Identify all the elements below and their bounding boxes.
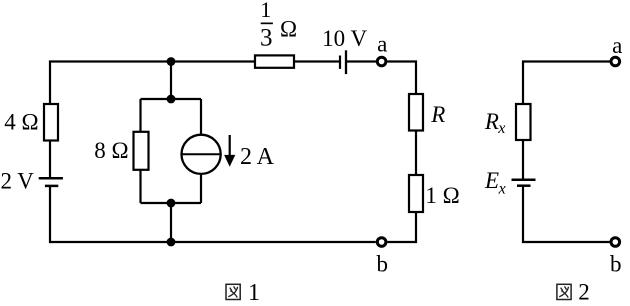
node dot: bottom junction [167, 238, 176, 247]
svg-text:R: R [484, 109, 499, 134]
wire: top rail down to 8-ohm resistor [139, 99, 141, 132]
svg-text:1: 1 [260, 0, 271, 22]
wire: fig1 2V battery down + bottom rail to terminal b [50, 186, 376, 242]
battery Ex plates (long top, short bottom) [512, 179, 536, 182]
resistor 8-ohm body [134, 132, 149, 170]
svg-text:b: b [610, 251, 622, 276]
wire: fig1 left rail top + top rail to 1/3-ohm resistor [50, 62, 255, 106]
wire: 10V battery to terminal a [346, 60, 376, 62]
terminal a (fig2) [611, 57, 620, 66]
wire: parallel pair right leg down to current source [200, 99, 202, 135]
wire: 1/3-ohm resistor to 10V battery [294, 60, 340, 62]
current source 2A circle [182, 135, 221, 174]
svg-text:8 Ω: 8 Ω [94, 138, 128, 163]
svg-text:a: a [612, 33, 622, 58]
resistor Rx body [516, 104, 531, 140]
wire: 1-ohm resistor down and left to terminal b [387, 212, 416, 242]
wire: parallel pair top rail [141, 98, 202, 100]
svg-text:Ω: Ω [280, 17, 297, 42]
node dot: top junction [167, 57, 176, 66]
svg-text:b: b [377, 251, 389, 276]
label fig1 caption: drawn kanji ZU + 1 [226, 280, 260, 306]
resistor 1/3-ohm body [255, 55, 294, 67]
resistor 1-ohm body [409, 175, 423, 212]
svg-text:10 V: 10 V [322, 26, 367, 51]
node dot: parallel pair bottom [167, 199, 176, 208]
wire: parallel pair bottom rail [141, 202, 202, 204]
svg-text:3: 3 [260, 24, 273, 51]
wire: fig1 4-ohm resistor to 2V battery [49, 140, 51, 178]
svg-text:x: x [497, 120, 505, 137]
svg-text:2 V: 2 V [0, 168, 34, 193]
wire: Rx to Ex battery [522, 140, 524, 180]
label 1/3-ohm fraction [260, 0, 297, 51]
wire: top node down to parallel pair top node [170, 62, 172, 100]
wire: 8-ohm resistor to parallel pair bottom rail [139, 170, 141, 204]
wire: terminal a to right rail down to resistor R [387, 62, 416, 95]
label Ex [484, 168, 506, 198]
svg-text:a: a [377, 32, 387, 57]
current direction arrow for 2A source [224, 135, 235, 167]
svg-text:E: E [484, 168, 499, 193]
current source chord line [182, 153, 221, 155]
label Rx [484, 109, 505, 137]
svg-text:1: 1 [248, 280, 260, 306]
wire: Ex battery down + bottom rail to terminal b [523, 186, 610, 242]
svg-text:R: R [430, 102, 445, 127]
battery 10V plates (short left, long right) [339, 56, 341, 69]
wire: fig2 top rail from Rx up to terminal a [523, 62, 610, 106]
wire: parallel pair bottom node down to main bottom rail [170, 203, 172, 242]
node dot: parallel pair top [167, 95, 176, 104]
terminal b (fig1) [377, 238, 386, 247]
svg-text:x: x [498, 181, 506, 198]
resistor R body [409, 94, 423, 131]
svg-text:1 Ω: 1 Ω [425, 183, 459, 208]
label fig2 caption: drawn kanji ZU + 2 [557, 280, 590, 305]
svg-text:4 Ω: 4 Ω [4, 109, 38, 134]
terminal b (fig2) [611, 238, 620, 247]
svg-text:2 A: 2 A [240, 144, 275, 170]
resistor 4-ohm body [44, 104, 58, 141]
terminal a (fig1) [377, 57, 386, 66]
wire: current source to parallel pair bottom rail [200, 174, 202, 204]
svg-text:2: 2 [578, 280, 590, 305]
wire: resistor R to 1-ohm resistor [415, 131, 417, 176]
battery 2V plates (long top, short bottom) [39, 177, 63, 180]
